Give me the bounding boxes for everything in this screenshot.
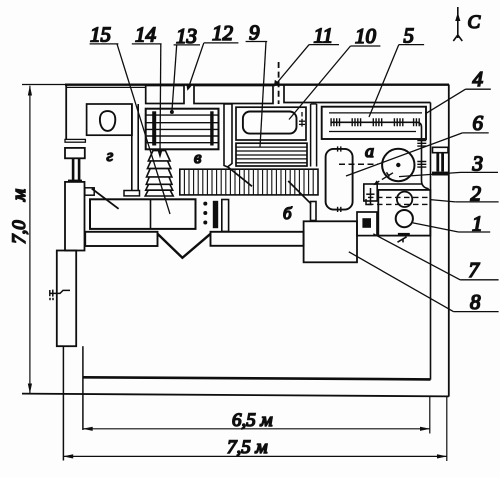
label 2 xyxy=(430,181,498,205)
wall bottom inner xyxy=(83,377,431,379)
partition wall g/v xyxy=(124,104,140,196)
folding table 10 xyxy=(243,112,297,134)
folding seat 6 xyxy=(326,146,353,212)
closet box left (top wall) xyxy=(146,86,184,104)
wall left column D xyxy=(57,346,83,460)
svg-text:7,5 м: 7,5 м xyxy=(227,437,268,458)
jack left xyxy=(65,148,85,182)
toilet bowl xyxy=(100,111,115,131)
svg-text:12: 12 xyxy=(212,21,234,45)
label 5 xyxy=(369,23,424,117)
toilet room xyxy=(87,104,132,135)
svg-text:14: 14 xyxy=(135,23,157,47)
dashed door line 11 xyxy=(278,62,280,104)
corridor wall xyxy=(224,104,232,167)
label 14 xyxy=(132,23,163,159)
svg-text:6,5 м: 6,5 м xyxy=(232,410,273,431)
door leaf corridor-v xyxy=(227,167,252,187)
label 8 xyxy=(349,252,499,314)
burner 1 xyxy=(396,210,413,227)
wall band top-right corner xyxy=(284,86,431,103)
door swing tick xyxy=(398,237,407,243)
wall left column B xyxy=(65,182,85,251)
closet box center (top wall) xyxy=(194,86,273,104)
svg-text:С: С xyxy=(468,12,481,33)
svg-text:4: 4 xyxy=(473,67,484,91)
dimension 7.0 vertical xyxy=(28,85,32,394)
dashed pipe lines xyxy=(368,196,429,198)
dashed arrow table-valve xyxy=(373,173,393,185)
wall right outer xyxy=(448,85,450,397)
door jamb bar xyxy=(311,202,317,221)
kitchen floor line xyxy=(374,183,422,185)
cabinet bar xyxy=(222,200,229,232)
step left xyxy=(85,232,157,246)
svg-text:8: 8 xyxy=(470,290,481,314)
svg-text:7,0: 7,0 xyxy=(9,220,30,244)
heater bar filled xyxy=(213,201,218,228)
svg-text:б: б xyxy=(283,204,292,223)
svg-text:м: м xyxy=(9,189,30,202)
dimension 7.5 xyxy=(63,454,447,458)
gas valve box xyxy=(364,184,377,205)
threshold mark xyxy=(398,233,410,236)
jack right xyxy=(432,147,449,175)
partition vent ticks xyxy=(417,141,426,168)
label 12 xyxy=(186,21,238,91)
step right xyxy=(211,232,304,246)
porch box 8 xyxy=(304,221,357,262)
bed 9 xyxy=(236,143,307,166)
round table 3 xyxy=(382,149,414,181)
wall room-a left xyxy=(311,104,317,167)
label 7 xyxy=(373,234,498,282)
bunk bed grid 13/14 xyxy=(146,109,219,150)
label 10 xyxy=(289,24,380,119)
bench chest xyxy=(90,199,196,229)
label 1 xyxy=(413,211,490,235)
hatch lines xyxy=(184,169,313,195)
label 15 xyxy=(90,23,170,215)
svg-text:в: в xyxy=(194,148,202,167)
svg-text:7: 7 xyxy=(469,258,481,282)
svg-text:а: а xyxy=(365,141,374,161)
label 6 xyxy=(346,111,489,176)
svg-text:г: г xyxy=(107,146,114,165)
wall left column C xyxy=(57,251,76,347)
wall left segment A xyxy=(65,85,67,140)
coat hooks dots xyxy=(203,202,207,225)
svg-text:15: 15 xyxy=(90,23,111,47)
heater box 7 xyxy=(357,212,377,236)
label 13 xyxy=(170,24,200,114)
wardrobe 5 xyxy=(322,107,426,139)
wall right inner xyxy=(430,103,432,380)
hatched floor band xyxy=(180,169,318,195)
label 4 xyxy=(425,67,491,114)
folding entrance steps V xyxy=(158,234,211,258)
svg-text:5: 5 xyxy=(404,23,415,47)
door leaf g xyxy=(92,189,119,209)
wall left jog xyxy=(65,139,85,142)
latch symbol xyxy=(299,112,305,127)
svg-text:6: 6 xyxy=(473,111,484,135)
door leaf corridor-a xyxy=(288,181,311,204)
label 11 xyxy=(274,23,339,86)
extension line right 6.5 xyxy=(429,397,431,434)
svg-text:11: 11 xyxy=(314,23,333,47)
dashed seat line xyxy=(339,163,378,165)
wall bottom outer xyxy=(22,394,449,397)
burner 2 xyxy=(397,192,412,207)
north arrow xyxy=(453,7,462,41)
wall top outer xyxy=(22,84,66,86)
hanger rod + partition xyxy=(330,122,428,189)
svg-text:10: 10 xyxy=(355,24,377,48)
wall top inner xyxy=(66,86,146,88)
grounding symbol xyxy=(49,290,70,301)
kitchen counter xyxy=(378,190,430,236)
label 3 xyxy=(399,152,498,177)
ladder 15 xyxy=(145,151,173,196)
svg-text:13: 13 xyxy=(176,24,197,48)
extension line right 7.5 xyxy=(446,397,448,462)
dimension 6.5 xyxy=(82,427,430,431)
door hinge box g xyxy=(85,188,94,195)
hanger ticks xyxy=(331,118,419,126)
compartment box 10 xyxy=(236,107,306,140)
heater filled square xyxy=(362,218,371,228)
label 9 xyxy=(246,21,268,148)
